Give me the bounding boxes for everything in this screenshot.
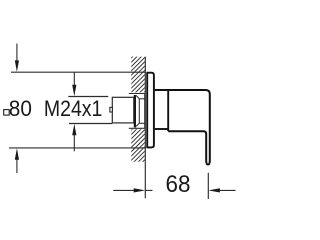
thread chamfer bottom (136, 123, 139, 126)
thread root line top (139, 98, 144, 100)
escutcheon plate sq-80 (147, 73, 154, 148)
68 extension line left (wall face) (144, 162, 146, 199)
handle lever outline (155, 90, 210, 165)
dim ext line: top of plate (sq-80 top) (11, 71, 146, 73)
wall hatch upper section (19, 30, 206, 170)
dim ext line: thread bottom (M24 bottom) (69, 123, 112, 125)
thread chamfer top (136, 95, 139, 98)
dim ext line: thread top (M24 top) (68, 96, 108, 98)
wall hatch lower section (92, 30, 275, 170)
68 dim line left arrow (points right) (113, 188, 152, 192)
valve cartridge housing (112, 97, 134, 123)
thread boundary vertical (138, 99, 140, 124)
in-wall valve body outline (129, 94, 145, 129)
handle neck bottom edge (155, 128, 168, 130)
sq-80 bottom arrow (up) (15, 148, 19, 173)
M24 top arrow (down) (72, 72, 76, 96)
square symbol of dim 80 (4, 110, 10, 116)
wall face line (144, 57, 146, 162)
68 ext line right (from handle tip) (207, 173, 209, 199)
thread root line bottom (139, 122, 144, 124)
svg-text:68: 68 (166, 171, 191, 198)
68 dim line right arrow (points left) (208, 188, 235, 192)
housing key notch (110, 107, 113, 112)
svg-text:M24x1: M24x1 (44, 96, 103, 121)
svg-text:80: 80 (9, 96, 32, 121)
M24 bottom arrow (up) (72, 124, 76, 152)
valve body flange (thick) (134, 95, 136, 127)
dim ext line: bottom of plate (sq-80 bottom) (9, 147, 146, 149)
handle hub divider line (167, 90, 169, 131)
sq-80 top arrow (down) (15, 44, 19, 72)
